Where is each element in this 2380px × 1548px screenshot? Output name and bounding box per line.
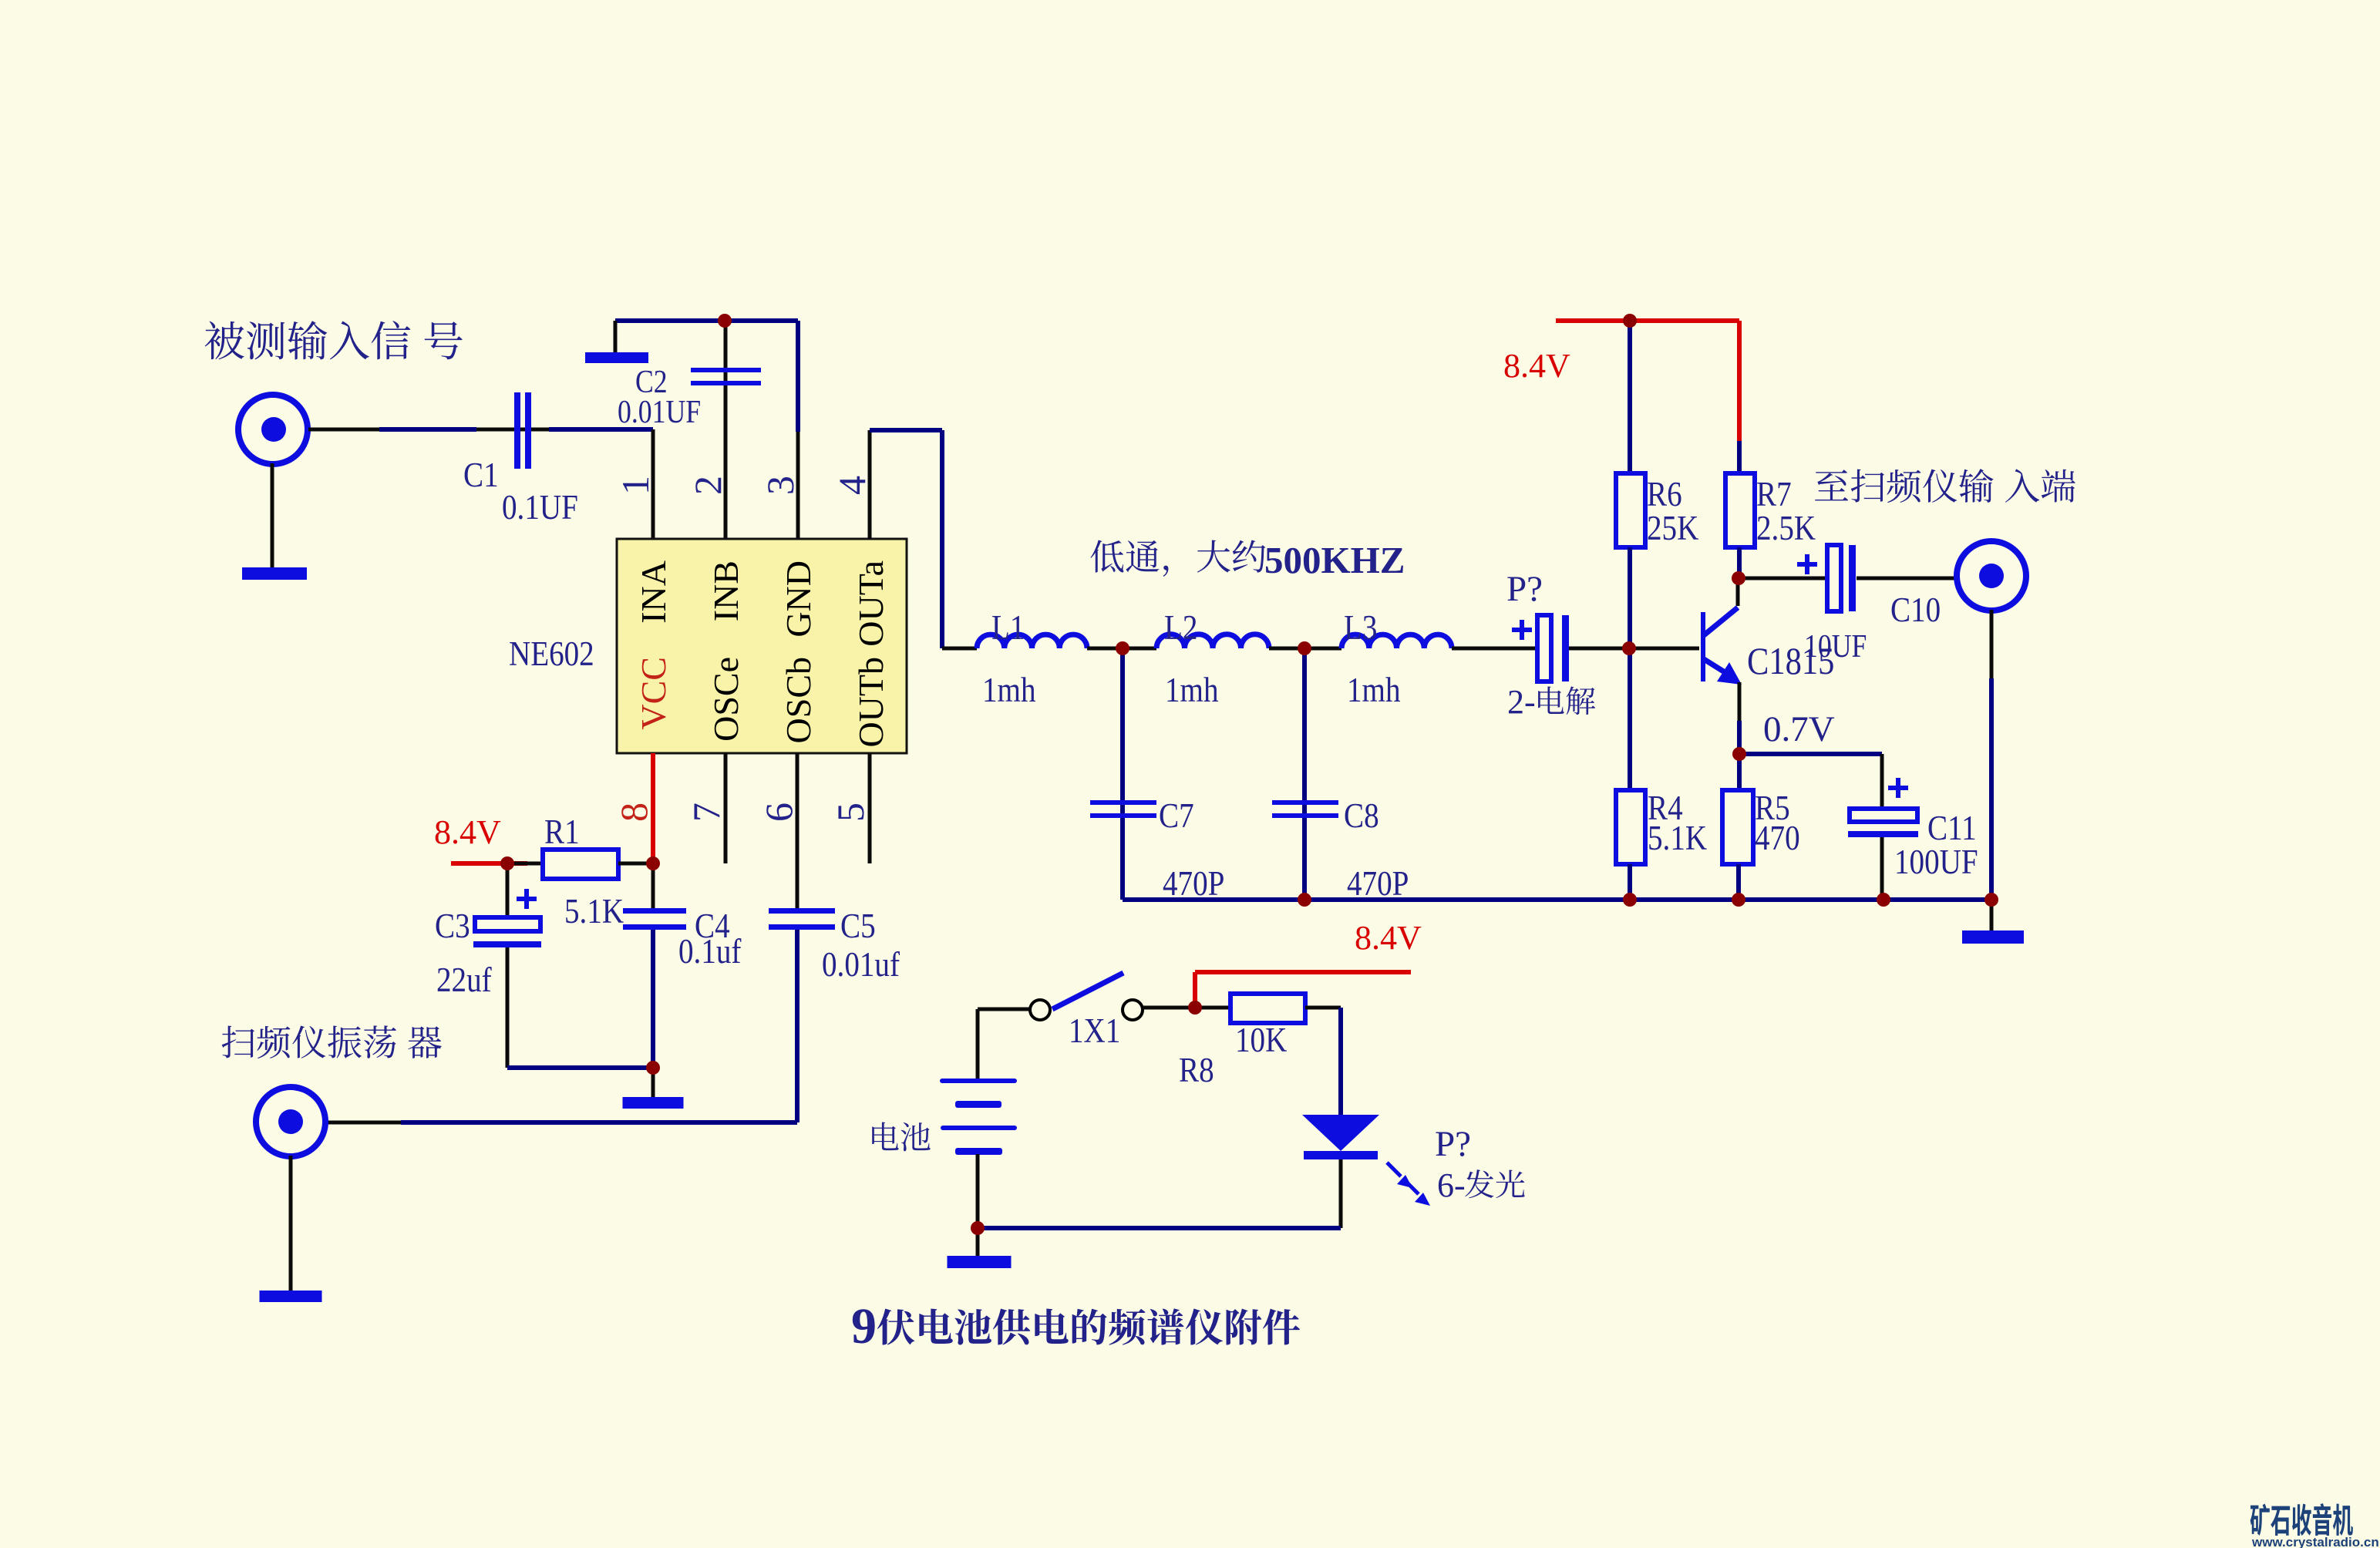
capacitor C8 branch wire: [1302, 648, 1307, 900]
capacitor C3 electrolytic: [475, 917, 540, 931]
svg-text:P?: P?: [1506, 569, 1543, 609]
connector J3 output BNC: [1957, 541, 2026, 611]
wire C11 to bus: [1880, 837, 1884, 900]
svg-text:R1: R1: [544, 813, 580, 852]
wire top bus: [615, 318, 798, 323]
wire pin2 riser: [724, 321, 728, 539]
svg-text:OSCb: OSCb: [779, 657, 818, 743]
wire P? to base: [1569, 647, 1699, 651]
ground C2: [585, 352, 648, 363]
ground battery: [948, 1256, 1012, 1268]
svg-text:OUTb: OUTb: [851, 657, 890, 748]
resistor R1: [543, 850, 618, 879]
svg-text:C7: C7: [1159, 796, 1194, 836]
svg-text:7: 7: [685, 803, 728, 822]
svg-text:6-: 6-: [1437, 1166, 1466, 1204]
wire rail to R6: [1628, 321, 1632, 473]
wire R8 to LED: [1305, 1006, 1341, 1010]
wire input BNC to C1: [308, 428, 379, 432]
svg-text:1mh: 1mh: [1347, 671, 1400, 710]
svg-text:4: 4: [830, 476, 874, 495]
wire L2 to L3: [1269, 647, 1341, 651]
svg-text:C3: C3: [435, 907, 470, 946]
junction top bus: [718, 314, 732, 328]
svg-text:100UF: 100UF: [1894, 843, 1978, 882]
svg-text:0.1uf: 0.1uf: [678, 932, 742, 971]
resistor R6: [1616, 473, 1645, 547]
svg-text:500KHZ: 500KHZ: [1264, 539, 1405, 581]
junction pin8 node: [646, 856, 660, 870]
wire rail to R7 red: [1737, 321, 1742, 441]
capacitor C2: [691, 368, 761, 372]
junction bus R4: [1623, 893, 1637, 907]
svg-text:470: 470: [1755, 819, 1800, 858]
wire to R1: [507, 862, 543, 866]
svg-text:OSCe: OSCe: [706, 657, 746, 742]
svg-text:8.4V: 8.4V: [434, 813, 501, 851]
switch S1 1X1: [1030, 1000, 1050, 1020]
wire LED to bottom: [1339, 1159, 1343, 1228]
svg-text:P?: P?: [1435, 1124, 1471, 1164]
inductor L1: [977, 634, 1087, 648]
svg-text:3: 3: [759, 476, 802, 495]
label lowpass 低通大约500KHZ: [1090, 540, 1265, 576]
capacitor C7: [1090, 800, 1156, 805]
svg-text:1: 1: [614, 476, 657, 495]
wire osc BNC to ground: [289, 1156, 293, 1292]
svg-text:1mh: 1mh: [982, 671, 1035, 710]
wire input BNC to ground: [271, 463, 274, 568]
wire bus to ground right: [1990, 900, 1994, 932]
pin 7 stub: [724, 753, 728, 863]
svg-text:0.1UF: 0.1UF: [502, 488, 578, 527]
junction battery minus: [971, 1221, 985, 1235]
wire C3 down: [506, 947, 510, 1068]
svg-text:C10: C10: [1890, 591, 1941, 630]
svg-text:1X1: 1X1: [1069, 1011, 1120, 1051]
junction collector node: [1732, 571, 1745, 585]
svg-text:OUTa: OUTa: [851, 560, 890, 647]
capacitor C11 electrolytic: [1850, 809, 1917, 822]
wire R1 to pin8 node: [618, 862, 653, 866]
svg-text:10UF: 10UF: [1804, 628, 1867, 664]
junction 8.4V tap: [1188, 1001, 1202, 1015]
wire pin3 riser: [796, 321, 800, 432]
wire pin4 to L1: [868, 430, 872, 539]
svg-text:L2: L2: [1164, 608, 1197, 648]
junction bus C11: [1877, 893, 1890, 907]
inductor L2: [1156, 634, 1269, 648]
wire 8.4V rail: [1556, 318, 1739, 323]
svg-text:25K: 25K: [1647, 509, 1698, 548]
wire R4 to bus: [1628, 864, 1632, 900]
svg-text:10K: 10K: [1235, 1021, 1287, 1060]
svg-text:R8: R8: [1179, 1051, 1214, 1090]
svg-text:6: 6: [757, 803, 800, 822]
wire battery to switch: [976, 1009, 980, 1079]
svg-text:0.01uf: 0.01uf: [822, 945, 900, 984]
wire bottom return: [978, 1226, 1341, 1230]
wire pin8 red: [651, 753, 655, 863]
junction node2: [1298, 641, 1311, 655]
junction gnd node: [646, 1061, 660, 1075]
transistor Q1 C1815: [1701, 612, 1705, 681]
junction node1: [1116, 641, 1129, 655]
ground input: [242, 567, 307, 580]
label osc 扫频仪振荡器: [222, 1025, 442, 1058]
resistor R5: [1722, 790, 1753, 864]
wire ground bus: [1123, 897, 1991, 902]
wire R5 to bus: [1736, 864, 1741, 900]
wire C3 to gnd node: [507, 1065, 653, 1070]
wire collector to C10: [1739, 577, 1826, 580]
ground vcc section: [623, 1097, 684, 1109]
svg-text:C5: C5: [840, 907, 876, 946]
wire emitter: [1738, 682, 1742, 721]
wire switch to R8: [1143, 1006, 1230, 1010]
junction base node: [1622, 641, 1636, 655]
wire 8.4V battery red: [1193, 972, 1197, 1008]
wire C1 to pin1 corner: [476, 428, 549, 432]
svg-text:L1: L1: [991, 608, 1025, 648]
wire output BNC down: [1990, 610, 1994, 678]
label output 至扫频仪输入端: [1815, 469, 2075, 503]
svg-text:5.1K: 5.1K: [564, 892, 624, 931]
svg-text:5: 5: [829, 803, 872, 822]
wire to C3: [506, 863, 510, 917]
svg-text:2-: 2-: [1507, 683, 1536, 721]
wire L3 to P?: [1452, 647, 1539, 651]
resistor R4: [1616, 790, 1645, 864]
IC U1 NE602 body: [617, 539, 907, 753]
junction bus R5: [1732, 893, 1745, 907]
junction vcc1: [500, 856, 514, 870]
wire L1 to L2: [1087, 647, 1156, 651]
watermark logo 矿石收音机: [2250, 1503, 2353, 1536]
capacitor C7 branch wire: [1120, 648, 1125, 900]
svg-text:8: 8: [612, 803, 655, 822]
capacitor C5: [769, 908, 835, 914]
connector J1 input BNC: [238, 395, 308, 464]
capacitor P? electrolytic: [1537, 615, 1551, 681]
wire bus to ground: [614, 321, 618, 354]
capacitor C1: [514, 392, 520, 469]
svg-text:C1: C1: [463, 456, 499, 495]
junction rail: [1623, 314, 1637, 328]
capacitor C10 electrolytic: [1827, 545, 1841, 611]
wire C5 to osc BNC: [401, 1120, 797, 1125]
resistor R7: [1725, 473, 1755, 547]
capacitor C8: [1272, 800, 1338, 805]
pin 5 stub: [868, 753, 872, 863]
wire R7 to collector node: [1737, 547, 1742, 578]
battery BT1: [940, 1079, 1017, 1083]
connector J2 osc BNC: [256, 1087, 325, 1156]
svg-text:0.7V: 0.7V: [1763, 709, 1835, 749]
inductor L3: [1341, 634, 1452, 648]
wire C10 to output BNC: [1857, 577, 1954, 580]
svg-text:L3: L3: [1344, 608, 1377, 648]
wire battery minus to ground: [976, 1228, 980, 1257]
svg-text:www.crystalradio.cn: www.crystalradio.cn: [2251, 1535, 2379, 1548]
wire gnd node down: [651, 1068, 655, 1099]
label 电池: [872, 1122, 930, 1152]
svg-text:GND: GND: [779, 560, 818, 638]
junction bus output: [1984, 893, 1998, 907]
svg-text:9: 9: [851, 1298, 877, 1354]
resistor R8: [1230, 994, 1305, 1023]
svg-text:5.1K: 5.1K: [1648, 819, 1707, 858]
wire collector: [1736, 578, 1740, 606]
junction emitter node: [1732, 747, 1746, 761]
wire R6 to base node: [1628, 547, 1632, 790]
wire 8.4V left red: [451, 861, 527, 866]
capacitor C4 wires: [651, 863, 655, 908]
svg-text:22uf: 22uf: [436, 961, 492, 1000]
svg-text:0.01UF: 0.01UF: [618, 394, 701, 429]
node: input signal label 被测输入信号: [205, 321, 463, 359]
svg-text:8.4V: 8.4V: [1355, 919, 1422, 957]
svg-text:8.4V: 8.4V: [1503, 347, 1570, 385]
svg-text:2.5K: 2.5K: [1756, 509, 1816, 548]
ground osc: [260, 1291, 322, 1302]
svg-text:1mh: 1mh: [1165, 671, 1218, 710]
ground right: [1962, 930, 2024, 944]
svg-text:VCC: VCC: [634, 657, 673, 730]
svg-text:NE602: NE602: [509, 634, 594, 674]
junction bus C8: [1298, 893, 1311, 907]
capacitor C5 wires: [796, 753, 800, 908]
LED P?: [1302, 1115, 1379, 1151]
capacitor C4: [623, 908, 686, 914]
svg-text:2: 2: [686, 476, 729, 495]
wire emitter to C11: [1739, 752, 1882, 756]
svg-text:INB: INB: [706, 560, 746, 621]
svg-text:C8: C8: [1344, 796, 1379, 836]
svg-text:INA: INA: [634, 560, 673, 624]
